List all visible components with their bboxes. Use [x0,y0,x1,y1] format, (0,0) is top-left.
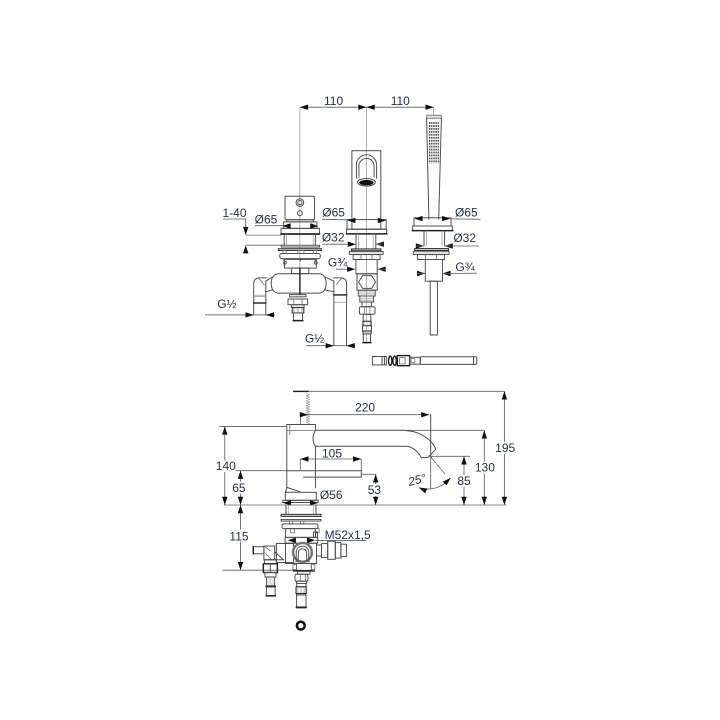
svg-text:M52x1,5: M52x1,5 [325,528,371,542]
label dia65 left [255,212,284,226]
shower shank [424,231,445,246]
tee body [271,268,326,296]
shower washers [413,249,449,260]
shower G34 tube [425,260,442,282]
handle unit neck band [287,220,314,222]
svg-text:65: 65 [232,481,246,495]
left elbow and pipe [254,278,266,315]
bottom drain circle [297,622,305,630]
svg-text:Ø32: Ø32 [322,231,345,245]
svg-text:85: 85 [457,474,471,488]
centerline middle unit [366,107,368,343]
valve left drop [263,560,277,596]
centerline right unit [433,107,435,117]
svg-text:G½: G½ [305,331,324,345]
shower wand [427,115,442,219]
valve left branch [253,546,283,560]
svg-text:53: 53 [368,483,382,497]
below deck shank [286,505,316,514]
shower hose assembly [373,356,477,366]
dia32 arrows spout [322,242,384,247]
base collar [283,492,319,502]
top reference line [294,390,309,392]
handle unit mounting nut [280,254,321,262]
right elbow and pipe [334,278,347,346]
dim 53 [361,474,385,505]
handle unit body [285,196,315,219]
handle lever [287,471,362,477]
G34 arrows shower [417,271,477,276]
handle unit shank [284,235,315,246]
centerline left unit [299,107,301,268]
svg-text:130: 130 [475,461,495,475]
svg-text:Ø65: Ø65 [322,205,345,219]
dim 1-40 [222,206,248,254]
faucet body [286,425,316,493]
svg-text:Ø65: Ø65 [255,212,278,226]
dim 25deg [406,456,453,493]
svg-text:Ø56: Ø56 [320,488,343,502]
valve upper body [285,529,318,544]
tee cone right [326,277,334,292]
tee bottom fitting [288,295,308,321]
svg-text:G¾: G¾ [455,260,475,274]
dia65 arrows left unit [282,223,318,228]
handle unit cartridge housing [284,259,318,268]
dim 105 [300,446,361,470]
dim G12 left [205,297,275,317]
valve main body [276,543,316,564]
svg-text:Ø32: Ø32 [453,231,476,245]
M52 arrows [288,528,371,543]
mounting nut lower [282,524,319,533]
spout arch [356,155,376,186]
svg-text:220: 220 [355,400,375,414]
deck line [224,504,507,506]
spout threaded collar [358,290,375,302]
svg-text:195: 195 [495,441,515,455]
G34 arrows spout [336,267,386,272]
svg-text:105: 105 [322,446,342,460]
dim 115 [223,505,300,570]
spout G34 tube [356,260,377,274]
dia56 arrows [283,488,343,506]
svg-text:G½: G½ [217,297,236,311]
dim 140 [216,426,287,505]
spout shank [356,234,376,249]
below deck washers [281,514,321,524]
dim 65 [232,471,288,505]
shower pull rod [430,281,437,335]
svg-text:110: 110 [324,94,343,108]
spout washers [349,249,383,260]
dia32 arrows shower [416,243,479,248]
threaded rod spring [306,394,310,424]
valve center drop [293,564,315,609]
spout unit body [352,151,381,230]
dimension 110-110 line [300,94,434,110]
dim 130 [402,430,495,505]
svg-text:110: 110 [391,94,410,108]
spout valve square [357,274,377,290]
spout flange [346,220,386,234]
spout bottom fitting [363,314,372,342]
shower holder flange [412,218,452,231]
dia65 arrows shower [414,216,480,221]
svg-text:Ø65: Ø65 [455,205,478,219]
spout hex nut lower [359,302,375,314]
dim 85 [429,456,473,505]
valve right branch [317,541,347,559]
spout profile [315,430,435,457]
handle unit flange [281,222,320,234]
svg-text:115: 115 [229,529,248,543]
handle unit washers [278,245,321,253]
handle unit neck2 [292,268,309,274]
dim G12 right [305,331,355,348]
svg-text:G¾: G¾ [328,255,348,269]
tee cone left [266,277,272,292]
label dia65 middle [322,205,347,220]
deck lines 1-40 [246,235,284,245]
dia65 arrows spout [347,218,386,223]
svg-text:140: 140 [216,459,236,473]
svg-text:1-40: 1-40 [222,206,246,220]
dim 195 [495,391,516,505]
dim 220 [300,400,431,456]
